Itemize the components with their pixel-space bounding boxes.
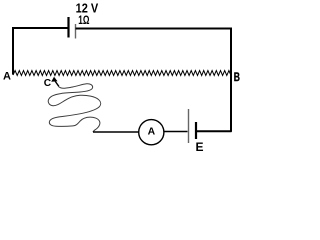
svg-text:A: A bbox=[148, 127, 156, 138]
wire right vertical bbox=[230, 28, 232, 132]
battery V1 12V long plate bbox=[67, 17, 69, 38]
svg-text:A: A bbox=[3, 71, 11, 83]
wire top-right horizontal bbox=[76, 28, 232, 30]
wire flexible-to-ammeter bbox=[93, 131, 139, 133]
wire top-left horizontal bbox=[13, 27, 68, 29]
wire ammeter-to-cell bbox=[164, 131, 188, 133]
cell E long plate bbox=[188, 109, 190, 143]
potentiometer wire AB zigzag bbox=[13, 71, 231, 76]
svg-text:B: B bbox=[234, 70, 240, 84]
wire cell-to-right bbox=[196, 130, 232, 132]
cell E short plate bbox=[195, 122, 197, 139]
flexible wire from jockey (coiled) bbox=[48, 84, 100, 132]
ammeter A bbox=[139, 120, 164, 145]
svg-text:C: C bbox=[44, 78, 52, 89]
jockey arrow at C bbox=[51, 77, 57, 82]
svg-text:1Ω: 1Ω bbox=[78, 14, 89, 27]
svg-text:E: E bbox=[196, 140, 204, 154]
battery V1 short plate bbox=[75, 24, 77, 39]
wire left vertical bbox=[12, 27, 14, 75]
